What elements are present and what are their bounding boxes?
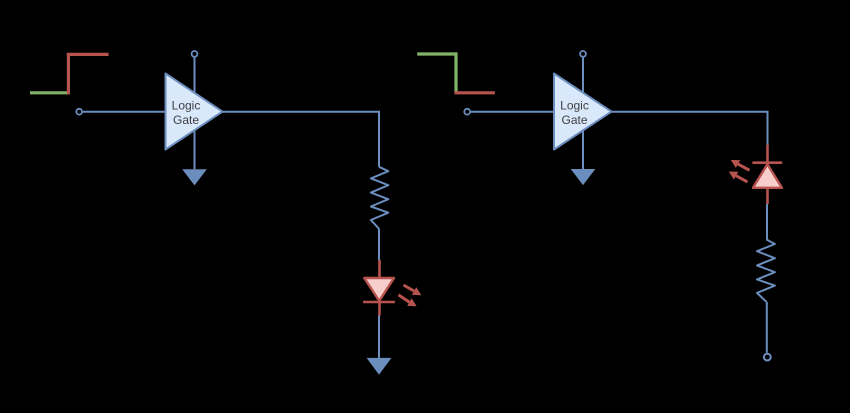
input terminal (right) bbox=[464, 109, 470, 115]
ground (left gate) bbox=[182, 169, 207, 185]
logic gate U1 (left) bbox=[166, 74, 223, 150]
logic gate U1 label bbox=[172, 99, 201, 127]
logic gate U2 label bbox=[560, 99, 589, 127]
LED D2 (right, cathode up) bbox=[729, 145, 782, 205]
wire right gate bottom to ground bbox=[582, 130, 584, 169]
wire left gate bottom to ground bbox=[194, 130, 196, 169]
wire resistor R2 to output terminal bbox=[766, 302, 768, 353]
wire LED D1 to ground bbox=[378, 316, 380, 358]
svg-text:Logic: Logic bbox=[172, 99, 201, 113]
resistor R2 bbox=[757, 240, 775, 302]
logic gate U2 (right) bbox=[554, 74, 612, 150]
power pin terminal (left gate top) bbox=[192, 51, 198, 57]
wire input to right gate bbox=[471, 111, 554, 113]
wire left gate output to resistor R1 bbox=[223, 112, 380, 167]
wire power pin to left gate top bbox=[194, 58, 196, 93]
wire right gate output to LED D2 bbox=[612, 112, 768, 145]
wire LED D2 to resistor R2 bbox=[766, 204, 768, 240]
power pin terminal (right gate top) bbox=[580, 51, 586, 57]
wire input to left gate bbox=[83, 111, 166, 113]
resistor R1 bbox=[371, 167, 388, 229]
ground (left circuit bottom) bbox=[367, 358, 392, 375]
input terminal (left) bbox=[76, 109, 82, 115]
svg-text:Gate: Gate bbox=[173, 113, 199, 127]
svg-text:Logic: Logic bbox=[560, 99, 589, 113]
falling-edge input waveform bbox=[417, 52, 495, 92]
output terminal (right circuit bottom) bbox=[764, 354, 771, 361]
wire resistor R1 to LED D1 bbox=[378, 229, 380, 260]
wire power pin to right gate top bbox=[582, 58, 584, 93]
LED D1 (left, cathode down) bbox=[363, 260, 421, 316]
rising-edge input waveform bbox=[30, 53, 109, 94]
svg-text:Gate: Gate bbox=[561, 113, 587, 127]
ground (right gate) bbox=[571, 169, 596, 185]
